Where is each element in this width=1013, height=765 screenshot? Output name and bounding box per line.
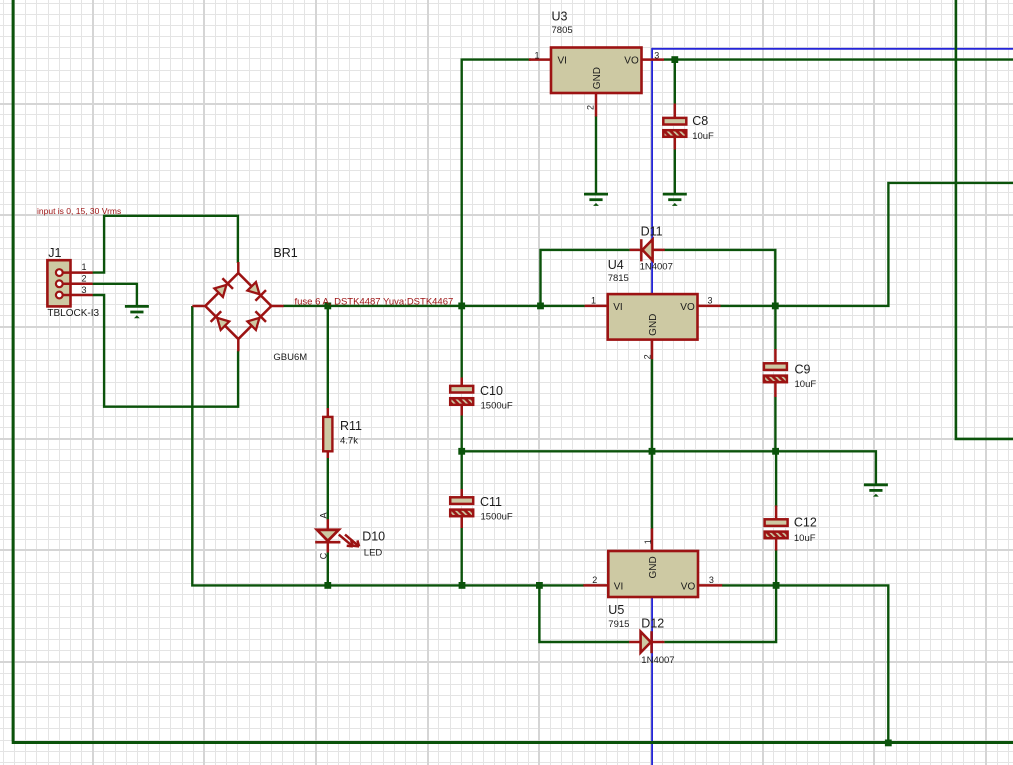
svg-text:input is 0, 15, 30 Vrms: input is 0, 15, 30 Vrms	[37, 206, 121, 216]
svg-text:1: 1	[82, 262, 87, 272]
svg-text:3: 3	[82, 285, 87, 295]
label C12 refdes	[794, 515, 817, 529]
resistor R11 stubs	[327, 408, 330, 458]
label C11 refdes	[480, 495, 502, 509]
svg-text:1N4007: 1N4007	[640, 262, 673, 273]
junction C8 tap	[671, 56, 678, 63]
label U4 pin number 1	[591, 296, 596, 306]
svg-text:GND: GND	[592, 67, 603, 89]
wire J1 pin3 to BR1 bottom	[93, 295, 239, 407]
label C9 value 10uF	[795, 379, 817, 390]
label U4 refdes	[608, 258, 624, 272]
label C8 refdes	[692, 114, 708, 128]
wire mid ground bus	[462, 451, 876, 485]
regulator U4 body	[608, 294, 698, 340]
wire C12 bottom	[775, 550, 777, 585]
wire C8 to ground	[674, 149, 676, 194]
wire U4 VO to right edge	[720, 183, 1013, 306]
capacitor C12 plates	[765, 519, 788, 538]
wire top-right vertical to right edge	[956, 0, 1013, 439]
regulator U5 pin stubs	[583, 528, 722, 585]
label U5 pin number 3	[709, 575, 714, 585]
svg-text:1: 1	[591, 296, 596, 306]
label U3 pin name VI	[558, 56, 567, 67]
label U5 refdes	[608, 603, 624, 617]
label J1 pin number 1	[82, 262, 87, 272]
ground mid bus right	[864, 485, 888, 497]
svg-text:2: 2	[643, 354, 653, 359]
svg-text:J1: J1	[48, 246, 61, 260]
label U4 pin name GND	[648, 314, 659, 336]
diode D12 stubs	[629, 641, 664, 644]
wire U5 VO to bottom rail	[722, 585, 888, 742]
wire D12 left branch	[539, 585, 629, 642]
junction D12 left bottom bus	[536, 582, 543, 589]
label C9 refdes	[795, 363, 811, 377]
node blue-rail horizontal	[652, 48, 1013, 50]
wire J1 pin2 to ground	[93, 284, 137, 307]
svg-text:1500uF: 1500uF	[481, 511, 513, 522]
diode D11 stubs	[630, 249, 665, 252]
text fuse annotation	[295, 296, 454, 307]
svg-text:U5: U5	[608, 603, 624, 617]
diode D11 cathode bar	[640, 239, 643, 261]
svg-text:1: 1	[535, 50, 540, 60]
label J1 refdes	[48, 246, 61, 260]
wire U3 GND down	[595, 116, 597, 194]
ground J1 pin2	[125, 306, 149, 318]
label U3 refdes	[552, 10, 568, 24]
label BR1 value GBU6M	[273, 352, 307, 363]
capacitor C12 stubs	[775, 506, 778, 551]
bridge BR1 diode top-left	[214, 278, 233, 297]
label J1 pin number 3	[82, 285, 87, 295]
junction bottom rail U5 output	[885, 740, 892, 747]
svg-text:C10: C10	[480, 384, 503, 398]
label U3 pin number 1	[535, 50, 540, 60]
wire U3 VI left vertical	[462, 60, 531, 386]
svg-text:3: 3	[709, 575, 714, 585]
capacitor C8 stubs	[674, 104, 677, 150]
svg-text:10uF: 10uF	[795, 379, 817, 390]
wire R11 to D10	[327, 458, 329, 521]
regulator U3 pin stubs	[529, 60, 664, 117]
svg-text:2: 2	[592, 575, 597, 585]
wire U4 GND down	[651, 359, 653, 451]
bridge BR1 edges	[205, 273, 271, 339]
label BR1 refdes	[273, 246, 297, 260]
svg-text:VI: VI	[558, 56, 567, 67]
label U4 value 7815	[608, 273, 629, 284]
junction C10 line on fuse bus	[458, 303, 465, 310]
svg-text:VO: VO	[680, 302, 695, 313]
label U5 pin name VI	[614, 582, 623, 593]
label D12 value 1N4007	[641, 655, 674, 666]
junction C10 C11 mid bus	[458, 448, 465, 455]
label C10 value 1500uF	[481, 400, 513, 411]
wire C10 to C11	[461, 405, 463, 498]
svg-text:C11: C11	[480, 495, 502, 509]
connector J1 pin circles	[56, 269, 63, 298]
svg-text:10uF: 10uF	[794, 533, 816, 544]
label U3 pin number 2	[586, 105, 596, 110]
bridge BR1 diode top-right	[247, 282, 266, 301]
diode D12 triangle	[641, 632, 651, 653]
junction D10 bottom bus	[324, 582, 331, 589]
label C12 value 10uF	[794, 533, 816, 544]
svg-text:LED: LED	[364, 548, 383, 559]
wire bottom rail	[12, 741, 1013, 744]
diode D10 LED stubs	[327, 519, 330, 552]
label C8 value 10uF	[692, 131, 714, 142]
regulator U4 pin stubs	[585, 306, 721, 359]
ground C8	[663, 194, 687, 206]
label D10 value LED	[364, 548, 383, 559]
wire C8 top	[674, 60, 676, 105]
bridge BR1 pin stubs	[192, 262, 283, 351]
label U3 pin number 3	[654, 50, 659, 60]
svg-text:D12: D12	[641, 617, 664, 631]
wire D11 left branch	[541, 250, 630, 306]
svg-text:U3: U3	[552, 10, 568, 24]
svg-text:C8: C8	[692, 114, 708, 128]
label R11 value 4.7k	[340, 435, 358, 446]
svg-text:TBLOCK-I3: TBLOCK-I3	[47, 308, 99, 319]
label U3 value 7805	[552, 25, 573, 36]
svg-text:VO: VO	[624, 56, 639, 67]
label U4 pin name VI	[613, 302, 622, 313]
svg-text:2: 2	[586, 105, 596, 110]
wire C9 top	[774, 306, 776, 350]
svg-text:C9: C9	[795, 363, 811, 377]
connector J1 pin stubs	[63, 273, 93, 295]
wire C12 top	[775, 451, 777, 507]
node blue-rail vertical	[651, 48, 653, 765]
capacitor C8 plates	[663, 118, 686, 137]
svg-text:1: 1	[643, 539, 653, 544]
label D12 refdes	[641, 617, 664, 631]
svg-text:3: 3	[654, 50, 659, 60]
junction C9 C12 mid bus	[772, 448, 779, 455]
wire D12 right branch	[664, 585, 776, 642]
junction R11 tap	[324, 303, 331, 310]
svg-text:7805: 7805	[552, 25, 573, 36]
ground U3	[584, 194, 608, 206]
regulator U3 body	[551, 48, 642, 94]
svg-text:R11: R11	[340, 419, 362, 433]
wire left border	[12, 0, 15, 741]
svg-text:BR1: BR1	[273, 246, 297, 260]
svg-text:VO: VO	[681, 582, 696, 593]
junction D12 right C12	[773, 582, 780, 589]
junction D11 right C9	[772, 303, 779, 310]
svg-text:GND: GND	[648, 314, 659, 336]
label U5 pin name VO	[681, 582, 696, 593]
label D10 anode A	[319, 512, 329, 518]
capacitor C9 stubs	[774, 349, 777, 397]
svg-text:GND: GND	[648, 556, 659, 578]
wire D11 right branch	[665, 250, 776, 306]
bridge BR1 diode bottom-right	[247, 311, 266, 330]
label D10 cathode C	[318, 552, 328, 559]
svg-text:C12: C12	[794, 515, 817, 529]
label U4 pin number 2	[643, 354, 653, 359]
svg-text:C: C	[318, 552, 328, 559]
wire U3 VO to right edge	[664, 58, 1013, 60]
label R11 refdes	[340, 419, 362, 433]
label D11 value 1N4007	[640, 262, 673, 273]
diode D12 cathode bar	[650, 631, 653, 653]
wire U5 GND up	[651, 451, 653, 529]
svg-text:VI: VI	[613, 302, 622, 313]
label C10 refdes	[480, 384, 503, 398]
diode D10 LED triangle	[317, 530, 339, 541]
svg-text:GBU6M: GBU6M	[273, 352, 307, 363]
regulator U5 body	[608, 551, 698, 597]
svg-text:7915: 7915	[608, 619, 629, 630]
svg-text:A: A	[319, 512, 329, 518]
capacitor C11 plates	[450, 497, 473, 516]
label U5 pin number 2	[592, 575, 597, 585]
capacitor C10 plates	[450, 386, 473, 405]
svg-text:2: 2	[82, 273, 87, 283]
label U5 value 7915	[608, 619, 629, 630]
svg-text:U4: U4	[608, 258, 624, 272]
label D10 refdes	[362, 530, 385, 544]
diode D11 triangle	[642, 239, 652, 260]
label J1 value TBLOCK-I3	[47, 308, 99, 319]
wire C11 to bottom bus	[461, 516, 463, 585]
svg-text:1N4007: 1N4007	[641, 655, 674, 666]
label U3 pin name VO	[624, 56, 639, 67]
diode D10 LED arrows	[339, 535, 359, 547]
junction D11 left on fuse bus	[537, 303, 544, 310]
label U3 pin name GND	[592, 67, 603, 89]
resistor R11 body	[323, 417, 332, 451]
label J1 pin number 2	[82, 273, 87, 283]
wire fuse bus BR1 right to U4 VI	[283, 305, 585, 307]
label D11 refdes	[641, 225, 663, 239]
label U4 pin name VO	[680, 302, 695, 313]
junction U4 U5 GND mid bus	[649, 448, 656, 455]
wire R11 top	[327, 306, 329, 409]
wire D10 to bottom bus	[327, 552, 329, 585]
wire C9 bottom	[774, 397, 776, 452]
svg-text:1500uF: 1500uF	[481, 400, 513, 411]
svg-text:D11: D11	[641, 225, 663, 239]
diode D10 LED cathode bar	[315, 541, 340, 544]
text input annotation	[37, 206, 121, 216]
svg-text:4.7k: 4.7k	[340, 435, 358, 446]
label C11 value 1500uF	[481, 511, 513, 522]
svg-text:10uF: 10uF	[692, 131, 714, 142]
label U4 pin number 3	[708, 296, 713, 306]
connector J1 body	[47, 260, 70, 306]
junction C11 bottom bus	[459, 582, 466, 589]
svg-text:D10: D10	[362, 530, 385, 544]
svg-text:7815: 7815	[608, 273, 629, 284]
capacitor C10 stubs	[460, 378, 463, 416]
capacitor C11 stubs	[460, 489, 463, 528]
capacitor C9 plates	[764, 363, 787, 382]
svg-text:3: 3	[708, 296, 713, 306]
wire J1 pin1 to BR1 top	[93, 216, 238, 273]
wire BR1 left to bottom bus	[192, 306, 584, 585]
svg-text:fuse 6 A, DSTK4487 Yuva:DSTK44: fuse 6 A, DSTK4487 Yuva:DSTK4467	[295, 296, 454, 307]
label U5 pin name GND	[648, 556, 659, 578]
bridge BR1 diode bottom-left	[211, 311, 230, 330]
label U5 pin number 1	[643, 539, 653, 544]
svg-text:VI: VI	[614, 582, 623, 593]
